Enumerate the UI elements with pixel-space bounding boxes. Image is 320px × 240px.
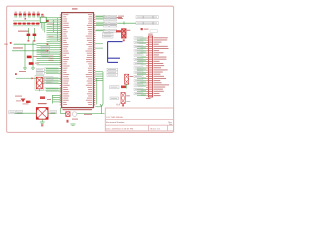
gray net-flag boxes near crystal [103, 33, 114, 38]
net-flag label row top-right B [117, 22, 158, 25]
small part top-right [141, 28, 158, 32]
svg-text:A.A: A.A [116, 103, 120, 106]
capacitor C2 [33, 28, 37, 42]
ground symbol GND2 [31, 68, 35, 69]
gray net-flag boxes right of IC1 top [104, 15, 117, 32]
IC1 reference label [72, 8, 78, 9]
IC IC1 (MCU) body [62, 13, 94, 108]
svg-text:Date: 4/29/2010 1:59:47 PM: Date: 4/29/2010 1:59:47 PM [106, 128, 134, 131]
gray net-flag boxes left of X1 [9, 111, 23, 114]
title block outline [105, 108, 173, 131]
net label text mid-left [18, 31, 29, 32]
title block divider sheet-right [167, 125, 169, 131]
bus entry wires from IC1 right [95, 44, 103, 48]
resistor row RN-A (R1-R7) [14, 12, 43, 18]
svg-text:Document Number:: Document Number: [106, 121, 125, 124]
pushbutton S1 (crossed box) [35, 76, 44, 91]
crystal Q1 right of IC1 [122, 29, 131, 42]
svg-text:Sheet: 1/1: Sheet: 1/1 [150, 128, 161, 131]
wires right of IC1 middle group [95, 72, 103, 105]
resistor R16 right of IC1 [116, 17, 124, 32]
connector J1 (green box) [40, 16, 49, 33]
JP1 name label [148, 34, 153, 35]
gray net-flag boxes right of IC1 middle [107, 68, 118, 76]
LED L2 [110, 93, 130, 107]
wires into JP1 [137, 38, 147, 96]
wire from IC1 bottom [61, 108, 67, 114]
title block row line 1 [105, 118, 173, 120]
net labels left of IC1 [47, 19, 59, 65]
JP1 pin stubs [146, 38, 148, 96]
gray net-flag boxes right of S1 [44, 77, 53, 84]
ground symbol below Y1 [71, 124, 76, 125]
JP1 bottom label [146, 98, 151, 99]
net label text left of S1 [19, 71, 26, 72]
red net labels right of gray boxes [118, 16, 124, 19]
svg-text:LILY PAD MEGA: LILY PAD MEGA [106, 116, 123, 119]
ground below X1 [40, 119, 45, 126]
supply cross near S1 [15, 73, 17, 75]
gray net-flag box right of X1 [50, 111, 57, 114]
gray box and resistor row lower right of IC1 [110, 86, 127, 89]
title block divider sheet-left [148, 125, 150, 131]
regulator components above X1 [26, 96, 51, 103]
crystal value texts [72, 114, 92, 120]
schematic page frame [7, 6, 174, 132]
gray net-flag boxes left of IC1 [41, 46, 50, 58]
nets right of IC1 top group [95, 15, 105, 30]
net label at frame left edge [4, 44, 8, 45]
diode D1 area [15, 96, 29, 105]
gray net-flag boxes lower-left of IC1 [36, 69, 44, 75]
IC1 left pin stubs [60, 15, 62, 105]
wires from S1 [16, 78, 44, 91]
power jack X1 (crossed box) [36, 103, 48, 119]
resonator Y1 [66, 112, 77, 123]
supply symbol +5V left [10, 42, 12, 44]
IC1 right pin name column [86, 14, 92, 105]
wire from Y1 to title block area [77, 106, 105, 114]
resistor R15 [29, 41, 39, 69]
capacitor C1 [27, 28, 31, 42]
LED L1 [125, 74, 134, 88]
wires to X1 [15, 112, 56, 114]
ground comb at IC1 bottom-left [53, 95, 62, 104]
arrow into S1 [32, 77, 34, 79]
JP1 inner pin numbers [149, 37, 152, 96]
IC1 value text (part number) [63, 109, 93, 110]
ground symbol GND1 [23, 68, 27, 69]
title block row line 2 [105, 124, 173, 126]
wire VCC horizontal [12, 43, 49, 51]
JP1 pin name labels [154, 37, 169, 96]
bus (blue) right of IC1 [108, 42, 123, 63]
IC1 left pin name column [63, 14, 69, 105]
wire fan to IC1 left pins [14, 18, 62, 65]
resistor R14 [25, 44, 32, 68]
net-flag label row top-right A [136, 16, 158, 19]
labelled nets lower-left of IC1 [45, 68, 62, 92]
header JP1 body [148, 36, 152, 97]
resistor row RN-B (R8-R13) [13, 18, 40, 26]
supply flag near title block [100, 104, 103, 106]
gray net-flag boxes left of JP1 [134, 37, 143, 95]
IC1 right pin stubs [94, 15, 96, 105]
